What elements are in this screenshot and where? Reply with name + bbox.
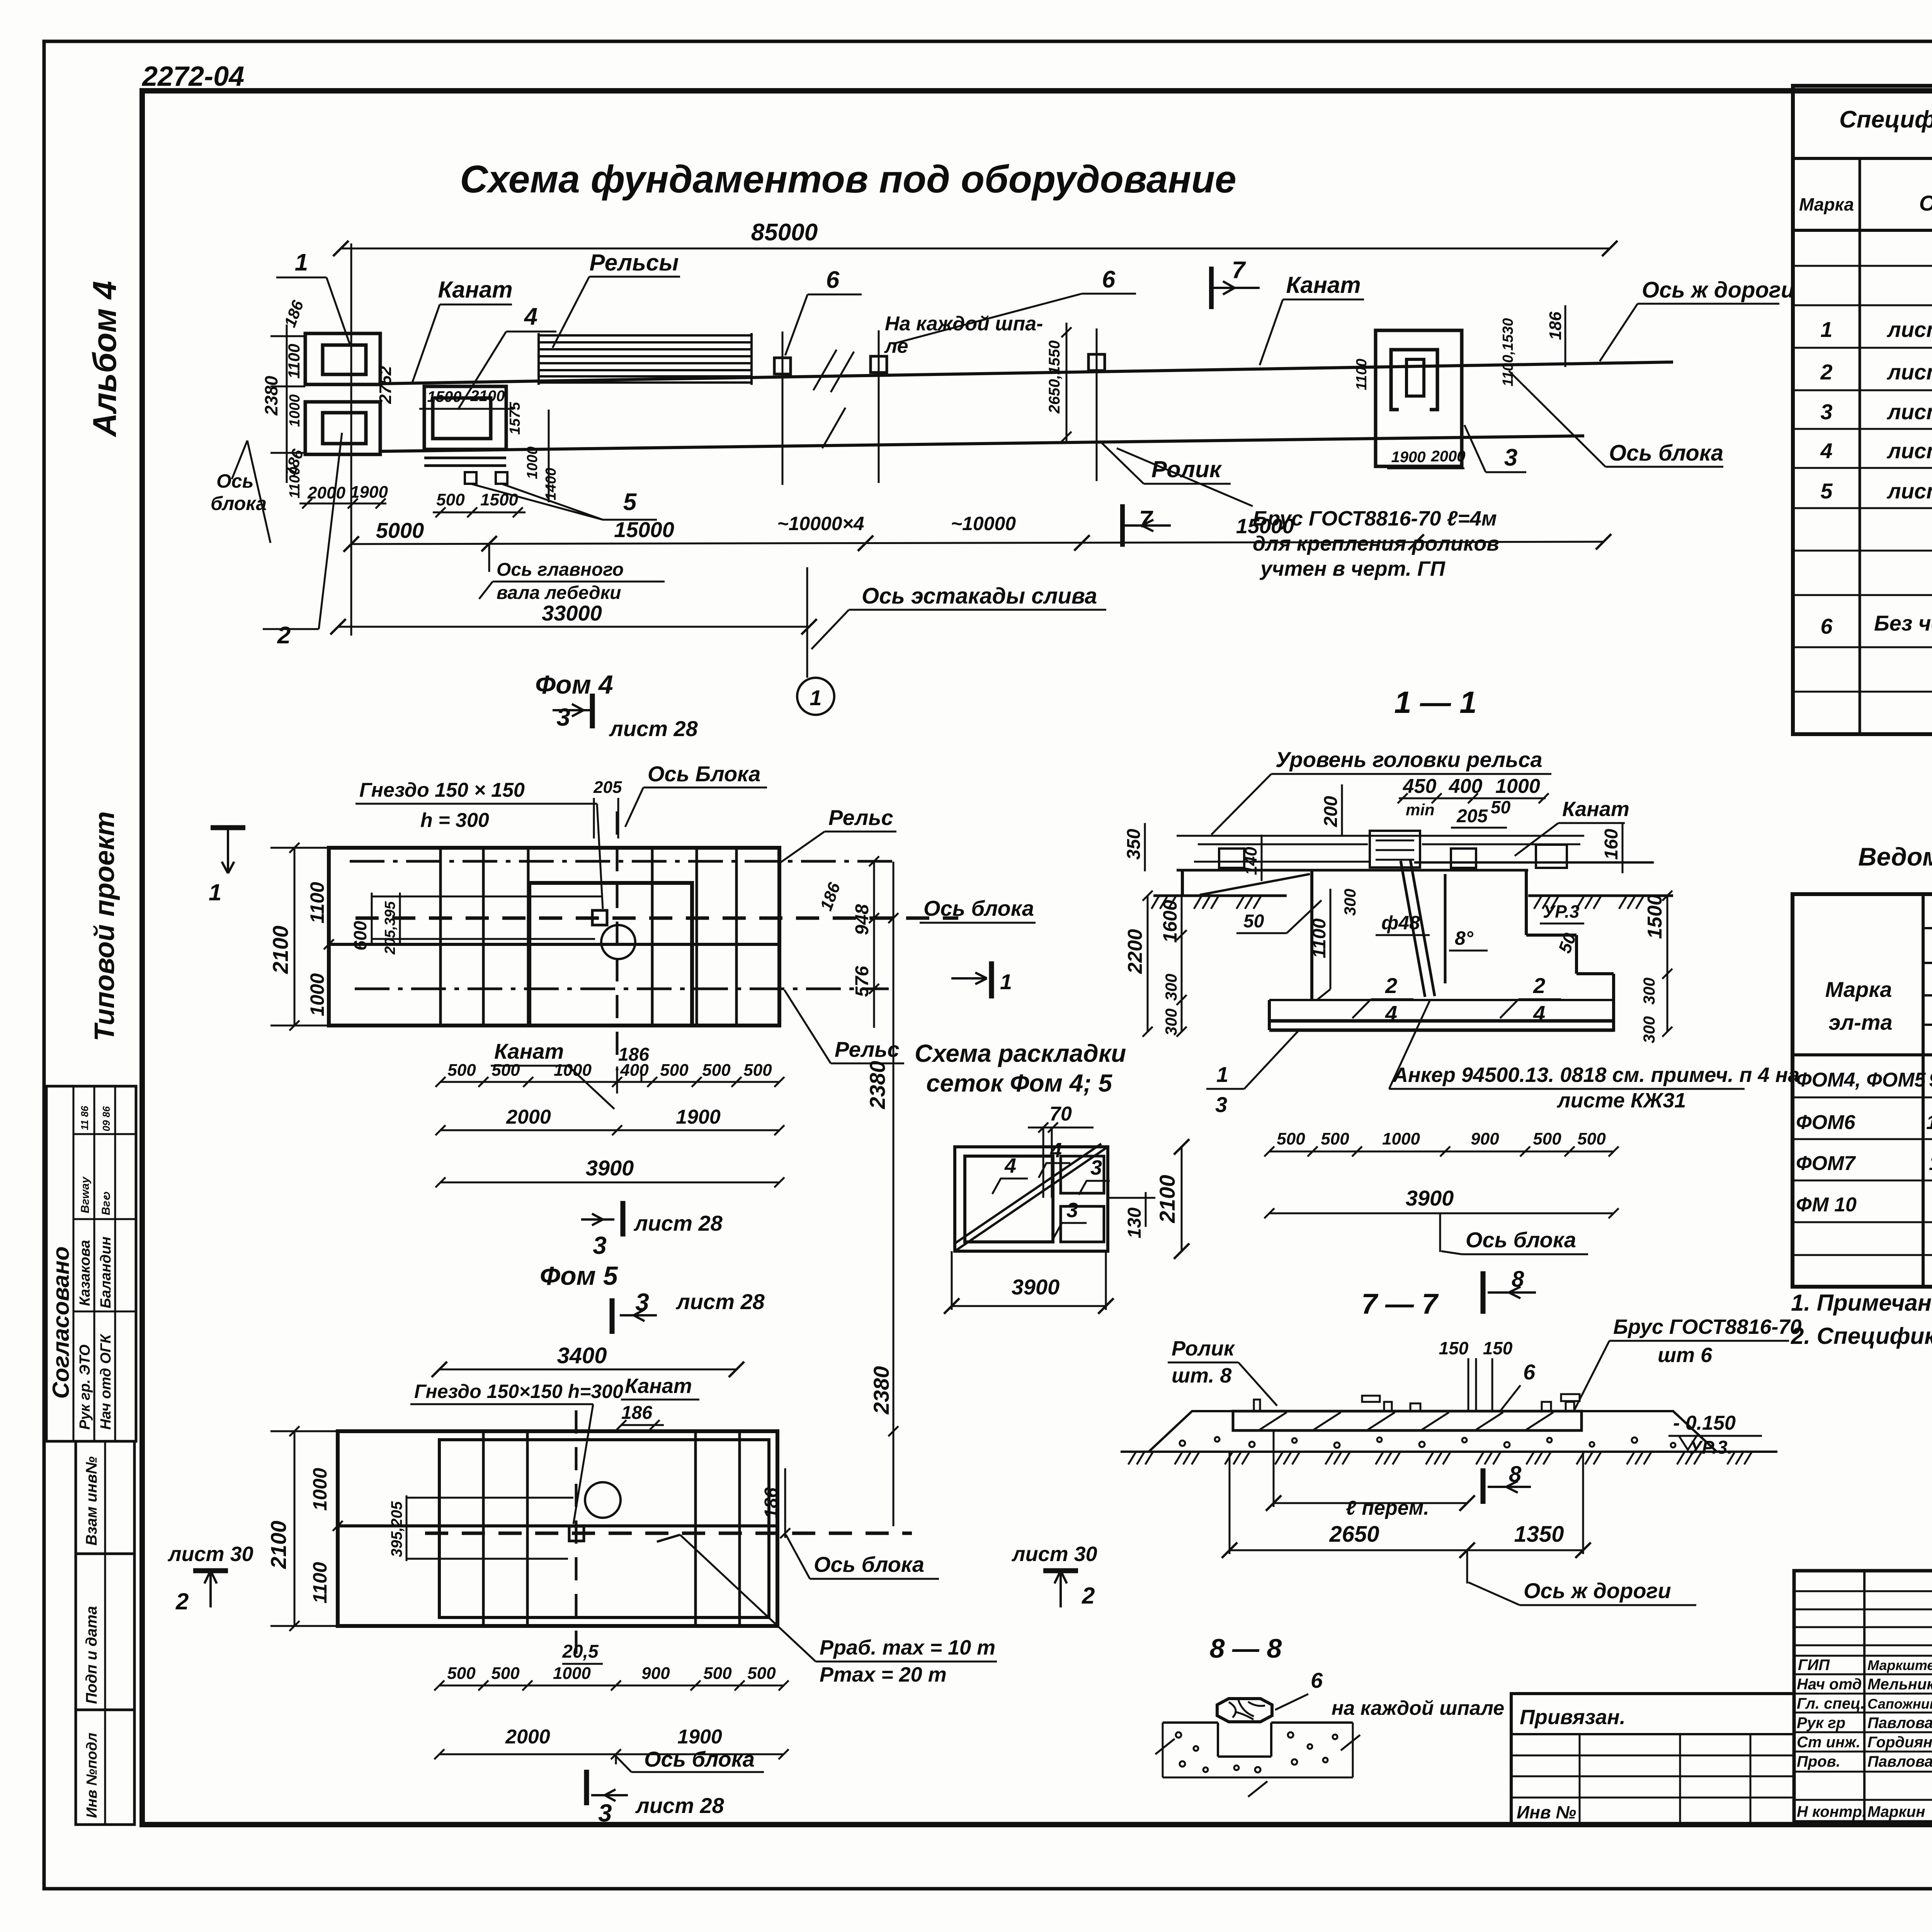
section marker 1 bottom-right bbox=[989, 961, 994, 998]
svg-text:эл-та: эл-та bbox=[1828, 1010, 1892, 1034]
svg-text:Пров.: Пров. bbox=[1797, 1753, 1840, 1770]
svg-text:2380: 2380 bbox=[865, 1061, 889, 1109]
svg-text:6: 6 bbox=[1311, 1668, 1323, 1692]
svg-text:2. Спецификацию на фундаме: 2. Спецификацию на фундаменты см на лист… bbox=[1791, 1323, 1932, 1349]
slab mid line bbox=[329, 943, 779, 946]
kanat axis vertical (dashed) bbox=[616, 811, 619, 1070]
slab mid line bbox=[338, 1524, 777, 1527]
svg-text:Альбом 4: Альбом 4 bbox=[87, 281, 123, 437]
svg-text:160: 160 bbox=[1601, 829, 1622, 860]
svg-text:Рук гр: Рук гр bbox=[1797, 1714, 1845, 1731]
signature table bbox=[1794, 1571, 1932, 1822]
slab outline bbox=[329, 848, 779, 1026]
svg-text:блока: блока bbox=[211, 493, 267, 514]
right dim 2380 vertical bbox=[893, 862, 895, 1526]
os zh dorogi bbox=[1466, 1550, 1468, 1583]
svg-text:1500: 1500 bbox=[427, 388, 462, 405]
svg-text:Инв №: Инв № bbox=[1517, 1802, 1576, 1822]
svg-text:1400: 1400 bbox=[543, 468, 559, 500]
svg-text:2100: 2100 bbox=[268, 925, 293, 974]
svg-text:186: 186 bbox=[281, 298, 307, 330]
svg-text:шт. 8: шт. 8 bbox=[1172, 1364, 1231, 1387]
svg-text:УР.3.: УР.3. bbox=[1689, 1437, 1733, 1458]
foundation 3 right bbox=[1376, 330, 1462, 466]
svg-text:300: 300 bbox=[1640, 1016, 1658, 1043]
steel table outer bbox=[1793, 894, 1932, 1287]
svg-text:Ведомость расхода стали: Ведомость расхода стали на элемент bbox=[1858, 842, 1932, 871]
svg-text:4: 4 bbox=[1385, 1001, 1397, 1026]
svg-text:2000: 2000 bbox=[307, 483, 345, 502]
spec table hangs from top: emphasize top line right part bbox=[1793, 84, 1932, 88]
svg-text:500: 500 bbox=[747, 1664, 776, 1683]
svg-text:5: 5 bbox=[623, 489, 637, 515]
svg-text:Спецификация к схеме фунда: Спецификация к схеме фундаментов bbox=[1839, 106, 1932, 133]
svg-text:500: 500 bbox=[703, 1664, 732, 1683]
SECTION: meshes bbox=[915, 1039, 1189, 1314]
svg-text:лист 28: лист 28 bbox=[609, 716, 698, 741]
svg-text:8: 8 bbox=[1512, 1267, 1524, 1292]
svg-text:2380: 2380 bbox=[869, 1366, 893, 1415]
svg-text:1: 1 bbox=[1000, 969, 1012, 994]
svg-text:1900: 1900 bbox=[1391, 449, 1426, 466]
svg-text:Рельс: Рельс bbox=[828, 805, 893, 830]
rail beam top lines bbox=[1177, 835, 1584, 837]
svg-text:Ролик: Ролик bbox=[1172, 1337, 1235, 1360]
svg-text:лист 30: лист 30 bbox=[167, 1543, 253, 1566]
section flag 8 top bbox=[1481, 1271, 1486, 1314]
svg-text:Рраб. mах = 10 т: Рраб. mах = 10 т bbox=[820, 1636, 995, 1659]
svg-text:листе КЖ31: листе КЖ31 bbox=[1556, 1089, 1686, 1112]
svg-text:500: 500 bbox=[436, 490, 465, 509]
svg-text:300: 300 bbox=[1162, 974, 1180, 1001]
svg-text:2272-04: 2272-04 bbox=[141, 61, 244, 92]
svg-text:шт 6: шт 6 bbox=[1658, 1344, 1713, 1367]
ground line left with hatch bbox=[1153, 895, 1287, 897]
svg-text:395,205: 395,205 bbox=[388, 1501, 405, 1557]
svg-text:Рельс: Рельс bbox=[835, 1037, 900, 1061]
svg-text:1. Примечания см. на лист: 1. Примечания см. на листе КЖ - 29 bbox=[1791, 1290, 1932, 1316]
svg-text:205: 205 bbox=[593, 778, 622, 797]
svg-text:Ось эстакады слива: Ось эстакады слива bbox=[862, 583, 1097, 609]
svg-text:500: 500 bbox=[702, 1061, 731, 1080]
inner pit rectangle bbox=[529, 883, 692, 1026]
wire rope line lower bbox=[380, 436, 1584, 451]
svg-text:Марка: Марка bbox=[1825, 977, 1892, 1002]
grid verticals bbox=[482, 1431, 485, 1626]
svg-text:8°: 8° bbox=[1455, 927, 1474, 949]
svg-text:500: 500 bbox=[491, 1664, 520, 1683]
svg-text:300: 300 bbox=[1162, 1009, 1180, 1036]
header bottom line bbox=[1793, 1053, 1932, 1056]
svg-text:Ось блока: Ось блока bbox=[1466, 1228, 1576, 1252]
sleeper tie 6a bbox=[782, 332, 784, 485]
svg-text:2380: 2380 bbox=[261, 376, 281, 416]
svg-text:УР.3: УР.3 bbox=[1543, 901, 1580, 922]
svg-text:8 — 8: 8 — 8 bbox=[1210, 1633, 1282, 1663]
svg-text:1000: 1000 bbox=[1495, 775, 1540, 798]
svg-text:Баландин: Баландин bbox=[98, 1236, 114, 1308]
svg-text:4: 4 bbox=[1004, 1154, 1016, 1177]
ballast bed bbox=[1149, 1411, 1233, 1452]
SECTION: sec88 bbox=[1155, 1633, 1504, 1797]
svg-text:3900: 3900 bbox=[586, 1156, 634, 1180]
svg-text:186: 186 bbox=[816, 880, 844, 913]
svg-text:лист 28: лист 28 bbox=[635, 1793, 724, 1818]
foundation 2 lower block bbox=[305, 402, 380, 454]
svg-text:186: 186 bbox=[761, 1488, 782, 1519]
svg-text:Казакова: Казакова bbox=[77, 1240, 93, 1306]
sleeper tie 6b bbox=[878, 330, 880, 483]
svg-text:1600: 1600 bbox=[1159, 900, 1181, 943]
ballast dots bbox=[1180, 1437, 1675, 1448]
svg-text:1000: 1000 bbox=[309, 1468, 331, 1511]
os bloka bottom label bbox=[615, 1754, 617, 1764]
section flag 8 bottom bbox=[1481, 1468, 1486, 1504]
SECTION: sidebar bbox=[46, 281, 136, 1825]
svg-text:1000: 1000 bbox=[553, 1664, 591, 1683]
svg-text:1100: 1100 bbox=[287, 467, 303, 498]
svg-text:500: 500 bbox=[492, 1061, 520, 1080]
svg-text:1: 1 bbox=[1820, 317, 1832, 342]
ground line right with hatch bbox=[1528, 895, 1673, 897]
SECTION: fom4 bbox=[209, 670, 1036, 1526]
svg-text:Ось блока: Ось блока bbox=[644, 1747, 755, 1771]
svg-text:ГИП: ГИП bbox=[1798, 1656, 1830, 1673]
svg-text:2: 2 bbox=[277, 622, 291, 649]
svg-text:15000: 15000 bbox=[614, 517, 674, 542]
bottom dim row2 bbox=[439, 1753, 784, 1755]
bottom dim chain row1 bbox=[439, 1685, 784, 1687]
svg-text:Инв №подл: Инв №подл bbox=[84, 1733, 100, 1818]
block circle bbox=[585, 1482, 621, 1518]
svg-text:5: 5 bbox=[1820, 479, 1833, 503]
mesh panel bbox=[955, 1147, 1108, 1251]
SECTION: fom5 bbox=[167, 1261, 1097, 1827]
svg-text:1350: 1350 bbox=[1514, 1522, 1564, 1547]
svg-text:50: 50 bbox=[1243, 911, 1264, 932]
svg-text:600: 600 bbox=[350, 921, 370, 951]
rail axis lower (chain) bbox=[355, 988, 889, 990]
svg-text:9,66: 9,66 bbox=[1929, 1069, 1932, 1091]
svg-text:ф48: ф48 bbox=[1381, 912, 1420, 934]
gnezdo square bbox=[592, 910, 607, 925]
svg-text:15000: 15000 bbox=[1236, 515, 1294, 538]
svg-text:500: 500 bbox=[1321, 1129, 1349, 1148]
svg-text:1000: 1000 bbox=[1382, 1129, 1420, 1148]
svg-text:2200: 2200 bbox=[1124, 929, 1146, 974]
svg-text:16,32: 16,32 bbox=[1926, 1111, 1932, 1134]
gnezdo square bbox=[569, 1526, 584, 1541]
svg-text:Нач отд ОГК: Нач отд ОГК bbox=[98, 1333, 114, 1430]
svg-text:500: 500 bbox=[743, 1061, 772, 1080]
svg-text:лист 28: лист 28 bbox=[1886, 400, 1932, 424]
svg-text:1500: 1500 bbox=[480, 490, 518, 509]
rails hatch block bbox=[539, 333, 752, 385]
svg-text:3: 3 bbox=[1090, 1156, 1102, 1179]
section flag 3 bottom (to sheet 28) bbox=[581, 1218, 614, 1221]
svg-text:2: 2 bbox=[1082, 1583, 1095, 1609]
wire rope line (kanat) upper bbox=[380, 362, 1673, 384]
SECTION: steeltable bbox=[1793, 842, 1932, 1287]
svg-text:лист 27: лист 27 bbox=[1886, 317, 1932, 342]
svg-text:~10000: ~10000 bbox=[951, 513, 1016, 534]
os bloka bottom bbox=[1439, 1213, 1441, 1252]
rails and clamps bbox=[1219, 849, 1244, 868]
bottom dim row3 3900 bbox=[440, 1182, 779, 1184]
svg-text:1: 1 bbox=[295, 249, 308, 276]
svg-text:500: 500 bbox=[1277, 1129, 1305, 1148]
svg-text:2000: 2000 bbox=[505, 1726, 550, 1748]
svg-text:лист 29: лист 29 bbox=[1886, 479, 1932, 503]
svg-text:186: 186 bbox=[1546, 311, 1565, 340]
svg-text:4: 4 bbox=[1050, 1139, 1062, 1162]
svg-text:Уровень головки рельса: Уровень головки рельса bbox=[1276, 747, 1543, 772]
svg-text:Подп и дата: Подп и дата bbox=[83, 1606, 100, 1704]
svg-text:Марка: Марка bbox=[1799, 194, 1854, 214]
svg-text:50: 50 bbox=[1491, 797, 1511, 817]
break marks bbox=[1155, 1739, 1175, 1754]
concrete dots bbox=[1176, 1732, 1337, 1772]
svg-text:Вгway: Вгway bbox=[79, 1176, 92, 1213]
svg-text:ФОМ4, ФОМ5: ФОМ4, ФОМ5 bbox=[1796, 1069, 1926, 1091]
svg-text:1900: 1900 bbox=[676, 1106, 721, 1128]
inner outline bbox=[439, 1440, 769, 1617]
svg-text:500: 500 bbox=[1533, 1129, 1561, 1148]
svg-text:6: 6 bbox=[826, 267, 840, 293]
spec table outer bbox=[1793, 86, 1932, 734]
block axis dashed bbox=[425, 1532, 912, 1535]
svg-text:Вгల: Вгల bbox=[100, 1191, 112, 1215]
axis of estakada sliva bbox=[806, 567, 808, 678]
svg-text:Ось ж дороги: Ось ж дороги bbox=[1642, 277, 1794, 303]
svg-text:900: 900 bbox=[641, 1664, 670, 1683]
svg-text:Канат: Канат bbox=[438, 277, 512, 303]
svg-text:Маркштедер: Маркштедер bbox=[1867, 1657, 1932, 1673]
block circle bbox=[601, 925, 635, 959]
svg-text:500: 500 bbox=[447, 1664, 476, 1683]
svg-text:Привязан.: Привязан. bbox=[1520, 1706, 1626, 1729]
svg-text:Гнездо 150 × 150: Гнездо 150 × 150 bbox=[359, 779, 525, 801]
foundation 4 (FOM6) bbox=[424, 386, 506, 449]
concrete patch bbox=[1163, 1721, 1218, 1724]
bottom dim 3900 bbox=[1269, 1213, 1614, 1214]
svg-text:2000: 2000 bbox=[1431, 448, 1466, 465]
svg-text:Без чертежа: Без чертежа bbox=[1874, 611, 1932, 635]
svg-text:1: 1 bbox=[810, 685, 821, 710]
svg-text:1000: 1000 bbox=[306, 973, 328, 1016]
dim 85000 bbox=[341, 248, 1610, 250]
rope break marks bbox=[813, 350, 837, 390]
svg-text:Обозначение: Обозначение bbox=[1919, 191, 1932, 215]
svg-text:3900: 3900 bbox=[1012, 1275, 1060, 1299]
svg-text:Канат: Канат bbox=[494, 1039, 564, 1063]
svg-text:300: 300 bbox=[1341, 889, 1359, 916]
svg-text:7 — 7: 7 — 7 bbox=[1361, 1288, 1439, 1320]
svg-text:min: min bbox=[1406, 801, 1435, 819]
svg-text:2: 2 bbox=[1533, 973, 1545, 998]
svg-text:Ось блока: Ось блока bbox=[1609, 440, 1723, 466]
svg-text:2100: 2100 bbox=[266, 1520, 291, 1569]
svg-text:6: 6 bbox=[1523, 1360, 1536, 1384]
svg-text:1: 1 bbox=[209, 879, 221, 905]
bottom dim row2 bbox=[440, 1129, 779, 1131]
marka col bbox=[1922, 894, 1925, 1287]
svg-text:1100: 1100 bbox=[1309, 918, 1330, 958]
svg-text:Рmах = 20 т: Рmах = 20 т bbox=[820, 1663, 947, 1686]
svg-text:2000: 2000 bbox=[506, 1106, 551, 1128]
svg-text:20,5: 20,5 bbox=[562, 1641, 599, 1662]
svg-text:Павлова: Павлова bbox=[1867, 1753, 1932, 1770]
svg-text:3: 3 bbox=[1215, 1092, 1227, 1117]
svg-text:1 — 1: 1 — 1 bbox=[1394, 685, 1476, 719]
kanat axis vertical dashed bbox=[575, 1410, 578, 1662]
grid verticals bbox=[439, 848, 442, 1026]
svg-text:Рельсы: Рельсы bbox=[590, 250, 679, 276]
SECTION: topplan bbox=[211, 158, 1794, 715]
svg-text:1900: 1900 bbox=[677, 1726, 722, 1748]
section marker 1 left bbox=[211, 825, 245, 830]
svg-text:Канат: Канат bbox=[625, 1374, 692, 1398]
svg-text:1100: 1100 bbox=[306, 882, 328, 923]
svg-text:ле: ле bbox=[884, 335, 908, 357]
svg-text:500: 500 bbox=[447, 1061, 476, 1080]
svg-text:Гл. спец.: Гл. спец. bbox=[1797, 1695, 1865, 1712]
svg-text:7: 7 bbox=[1232, 257, 1246, 284]
svg-text:6: 6 bbox=[1102, 266, 1116, 293]
svg-text:1100: 1100 bbox=[1354, 359, 1370, 390]
svg-text:~10000×4: ~10000×4 bbox=[777, 513, 864, 534]
svg-text:Ось главного: Ось главного bbox=[497, 560, 624, 580]
signature rows bbox=[1797, 1656, 1932, 1820]
svg-text:Брус ГОСТ8816-70: Брус ГОСТ8816-70 bbox=[1613, 1315, 1801, 1338]
svg-text:2650,1550: 2650,1550 bbox=[1046, 340, 1063, 414]
inventory strip boxes bbox=[76, 1441, 134, 1825]
svg-text:3: 3 bbox=[598, 1799, 612, 1827]
svg-text:1: 1 bbox=[1216, 1062, 1228, 1087]
svg-text:1000: 1000 bbox=[554, 1061, 592, 1080]
svg-text:Типовой проект: Типовой проект bbox=[89, 811, 120, 1041]
svg-text:500: 500 bbox=[1577, 1129, 1606, 1148]
svg-text:лист 28: лист 28 bbox=[633, 1211, 723, 1235]
svg-text:2650: 2650 bbox=[1329, 1522, 1379, 1547]
slab outline bbox=[338, 1431, 777, 1626]
svg-text:150: 150 bbox=[1483, 1338, 1513, 1358]
svg-text:70: 70 bbox=[1049, 1103, 1072, 1125]
SECTION: sec11 bbox=[1124, 685, 1799, 1254]
rail fasteners on top bbox=[1254, 1400, 1260, 1411]
svg-text:350: 350 bbox=[1124, 829, 1144, 860]
svg-text:Ось блока: Ось блока bbox=[814, 1552, 924, 1577]
svg-text:5000: 5000 bbox=[376, 518, 424, 543]
svg-text:на каждой шпале: на каждой шпале bbox=[1332, 1697, 1504, 1719]
anchor rod slanted bbox=[1401, 861, 1425, 997]
SECTION: sec77 bbox=[1121, 1267, 1801, 1605]
svg-text:2: 2 bbox=[175, 1588, 189, 1614]
svg-text:Нач отд: Нач отд bbox=[1797, 1676, 1862, 1693]
svg-text:ФОМ7: ФОМ7 bbox=[1796, 1152, 1856, 1175]
svg-text:1000: 1000 bbox=[524, 446, 541, 479]
svg-text:Анкер 94500.13. 0818 см. при: Анкер 94500.13. 0818 см. примеч. п 4 на bbox=[1392, 1063, 1799, 1087]
svg-text:900: 900 bbox=[1471, 1129, 1499, 1148]
block axis (dashed) bbox=[355, 917, 958, 920]
svg-text:На каждой шпа-: На каждой шпа- bbox=[885, 313, 1043, 335]
SECTION: titleblock bbox=[1511, 1571, 1932, 1861]
svg-text:Фом 4: Фом 4 bbox=[535, 670, 613, 699]
svg-text:2: 2 bbox=[1820, 360, 1832, 384]
kanat line to the right bbox=[1414, 861, 1654, 864]
svg-text:h = 300: h = 300 bbox=[420, 809, 489, 832]
svg-text:Сапожникова: Сапожникова bbox=[1867, 1696, 1932, 1712]
svg-text:6: 6 bbox=[1820, 614, 1833, 638]
svg-text:8: 8 bbox=[1509, 1462, 1522, 1487]
svg-text:Согласовано: Согласовано bbox=[48, 1247, 74, 1399]
svg-text:3: 3 bbox=[1504, 444, 1517, 471]
svg-text:205,395: 205,395 bbox=[382, 901, 398, 955]
svg-text:09 86: 09 86 bbox=[100, 1106, 112, 1131]
svg-text:1000: 1000 bbox=[287, 394, 303, 427]
svg-text:Взам инв№: Взам инв№ bbox=[83, 1456, 100, 1546]
bottom dim chain row1 bbox=[440, 1081, 779, 1083]
svg-text:лист 28: лист 28 bbox=[675, 1289, 765, 1314]
svg-text:500: 500 bbox=[660, 1061, 689, 1080]
row lines bbox=[1793, 265, 1932, 267]
svg-text:Гнездо 150×150 h=300: Гнездо 150×150 h=300 bbox=[414, 1381, 623, 1402]
svg-text:300: 300 bbox=[1640, 978, 1658, 1005]
svg-text:3: 3 bbox=[1066, 1199, 1078, 1222]
section flag 3 bottom bbox=[584, 1770, 589, 1805]
column lines bbox=[1859, 158, 1861, 734]
svg-text:2752: 2752 bbox=[376, 366, 395, 404]
svg-text:3: 3 bbox=[593, 1231, 607, 1259]
foundation 1 upper block bbox=[305, 333, 380, 384]
svg-text:205: 205 bbox=[1456, 806, 1488, 827]
foundation profile bbox=[1310, 870, 1313, 1001]
svg-text:130: 130 bbox=[1124, 1207, 1145, 1238]
data row lines bbox=[1793, 1097, 1932, 1099]
header band bbox=[1793, 157, 1932, 160]
svg-text:лист 27: лист 27 bbox=[1886, 360, 1932, 384]
svg-text:3: 3 bbox=[556, 703, 570, 731]
svg-text:2100: 2100 bbox=[470, 388, 505, 405]
svg-text:Схема раскладки: Схема раскладки bbox=[915, 1039, 1126, 1067]
svg-text:Ось Блока: Ось Блока bbox=[648, 762, 760, 786]
beam with hatching bbox=[1233, 1411, 1582, 1430]
svg-text:ℓ перем.: ℓ перем. bbox=[1346, 1497, 1429, 1519]
svg-text:2: 2 bbox=[1385, 973, 1397, 998]
svg-text:1575: 1575 bbox=[507, 402, 523, 435]
svg-text:4: 4 bbox=[1533, 1001, 1545, 1026]
svg-text:учтен в черт. ГП: учтен в черт. ГП bbox=[1259, 557, 1446, 580]
svg-text:Ст инж.: Ст инж. bbox=[1797, 1734, 1861, 1751]
main dim chain row bbox=[351, 542, 1604, 544]
svg-text:948: 948 bbox=[852, 904, 872, 935]
svg-text:вала лебедки: вала лебедки bbox=[497, 583, 621, 603]
svg-text:33000: 33000 bbox=[542, 601, 602, 625]
svg-text:Маркин: Маркин bbox=[1867, 1803, 1925, 1820]
svg-text:Павлова: Павлова bbox=[1867, 1714, 1932, 1731]
svg-text:Ось блока: Ось блока bbox=[923, 896, 1034, 920]
rail axis upper (chain) bbox=[350, 860, 893, 863]
svg-text:4: 4 bbox=[1820, 439, 1832, 463]
svg-text:Н контр.: Н контр. bbox=[1797, 1803, 1866, 1820]
svg-text:ФМ 10: ФМ 10 bbox=[1796, 1194, 1857, 1216]
ground line with hatch bbox=[1121, 1451, 1777, 1453]
SECTION: spectable bbox=[1793, 86, 1932, 734]
svg-text:Канат: Канат bbox=[1286, 272, 1361, 298]
svg-text:150: 150 bbox=[1439, 1338, 1469, 1358]
svg-text:Канат: Канат bbox=[1562, 798, 1629, 821]
svg-text:85000: 85000 bbox=[751, 219, 818, 246]
